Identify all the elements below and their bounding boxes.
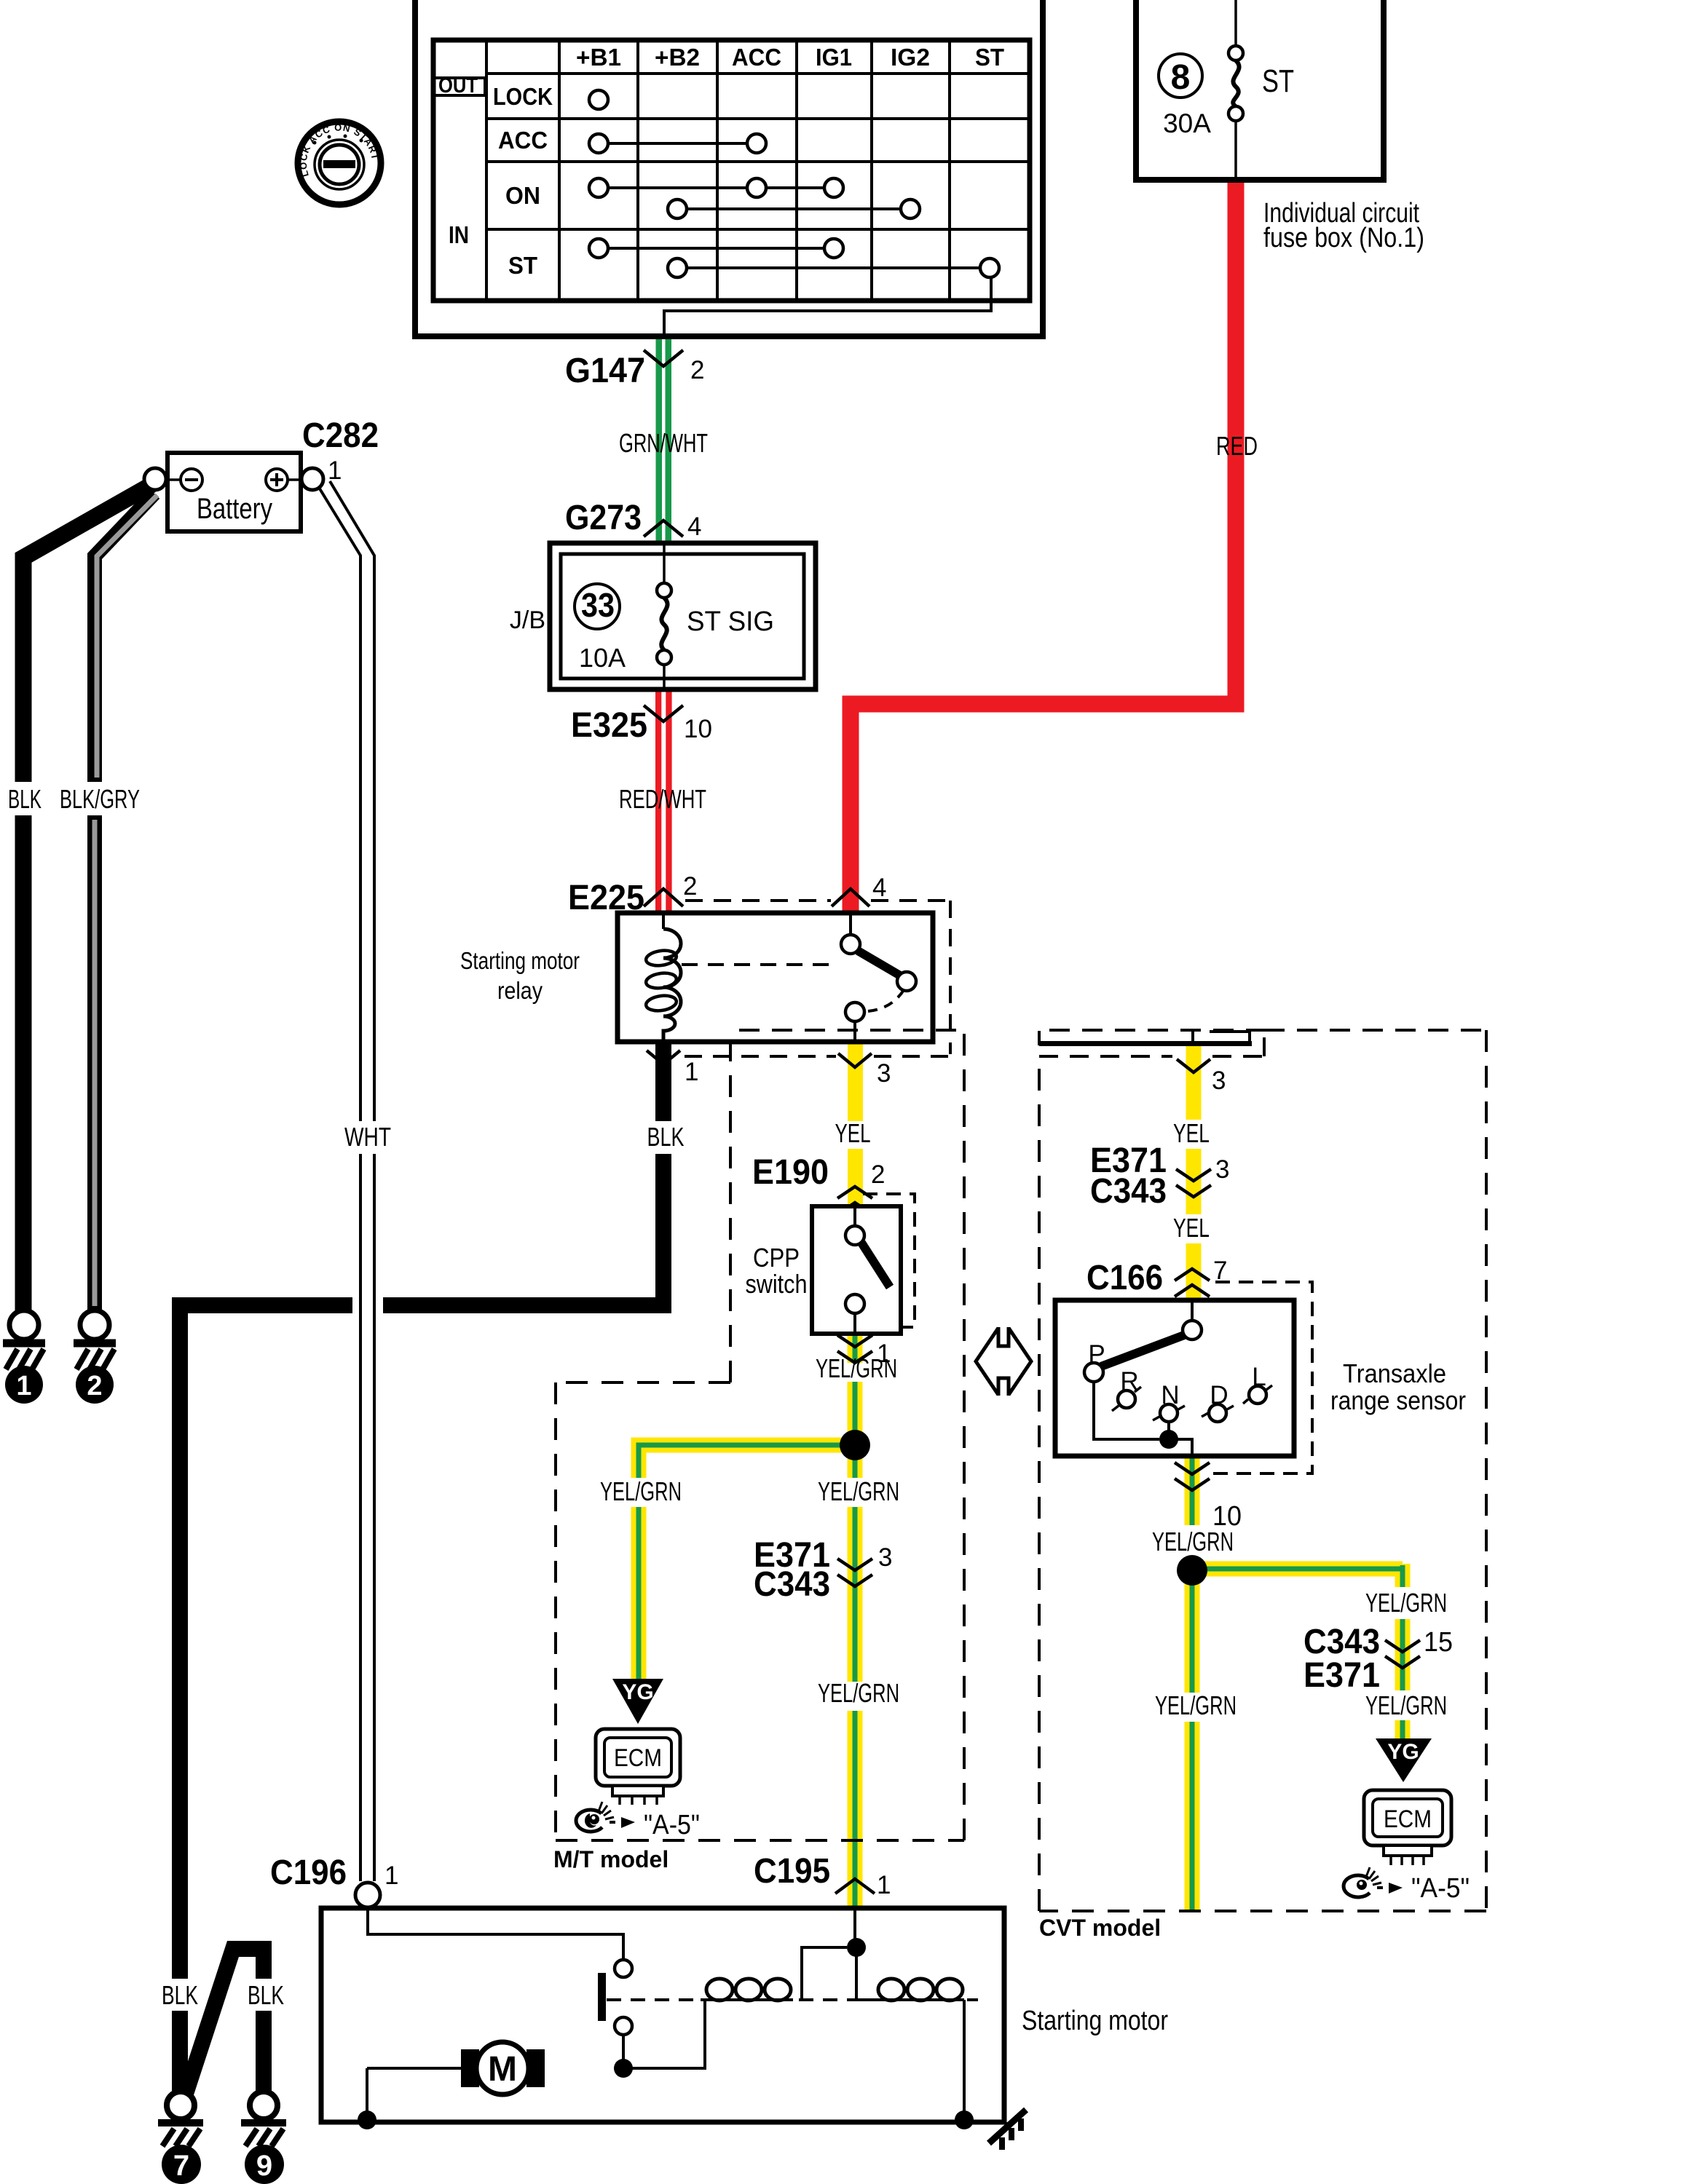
svg-text:Battery: Battery (197, 493, 272, 525)
svg-text:fuse box (No.1): fuse box (No.1) (1263, 223, 1424, 253)
svg-text:LOCK: LOCK (493, 83, 553, 110)
svg-text:Starting motor: Starting motor (1022, 2006, 1168, 2036)
svg-text:1: 1 (16, 1371, 31, 1401)
svg-text:BLK: BLK (162, 1980, 198, 2010)
svg-text:1: 1 (384, 1861, 398, 1890)
svg-text:2: 2 (690, 356, 704, 384)
svg-text:WHT: WHT (344, 1122, 391, 1152)
svg-text:4: 4 (687, 513, 701, 541)
svg-text:YEL/GRN: YEL/GRN (1365, 1588, 1447, 1618)
svg-text:2: 2 (683, 872, 697, 901)
svg-text:2: 2 (87, 1371, 102, 1401)
svg-text:OUT: OUT (438, 74, 478, 98)
svg-text:range sensor: range sensor (1330, 1385, 1466, 1415)
svg-text:YEL/GRN: YEL/GRN (1155, 1690, 1237, 1720)
svg-text:E190: E190 (752, 1153, 829, 1192)
svg-text:3: 3 (1212, 1067, 1226, 1095)
svg-text:3: 3 (877, 1059, 891, 1088)
svg-text:L: L (1252, 1363, 1266, 1391)
svg-text:relay: relay (497, 977, 543, 1004)
svg-text:YEL/GRN: YEL/GRN (1365, 1690, 1447, 1720)
svg-text:ST SIG: ST SIG (687, 606, 774, 637)
svg-text:C343: C343 (754, 1565, 830, 1604)
svg-text:ECM: ECM (614, 1744, 662, 1772)
svg-text:CVT model: CVT model (1039, 1915, 1161, 1941)
svg-text:3: 3 (1215, 1155, 1229, 1184)
svg-text:"A-5": "A-5" (644, 1810, 700, 1840)
svg-text:ST: ST (508, 252, 537, 279)
svg-text:8: 8 (1171, 58, 1191, 97)
svg-text:M/T model: M/T model (553, 1846, 669, 1872)
svg-text:YEL/GRN: YEL/GRN (818, 1476, 899, 1506)
svg-text:BLK: BLK (8, 784, 42, 814)
svg-text:7: 7 (1213, 1257, 1227, 1285)
svg-text:G147: G147 (565, 352, 645, 390)
svg-text:YG: YG (622, 1680, 653, 1704)
svg-text:3: 3 (878, 1543, 892, 1572)
svg-text:switch: switch (746, 1269, 808, 1299)
svg-text:ON: ON (505, 182, 540, 209)
svg-text:Starting motor: Starting motor (460, 947, 580, 974)
svg-text:15: 15 (1424, 1627, 1453, 1658)
svg-text:G273: G273 (565, 499, 642, 537)
svg-text:C196: C196 (270, 1853, 347, 1892)
svg-text:IN: IN (449, 221, 469, 248)
svg-text:YG: YG (1387, 1740, 1419, 1764)
svg-text:RED: RED (1216, 431, 1258, 461)
svg-text:C166: C166 (1086, 1259, 1163, 1297)
svg-text:BLK: BLK (248, 1980, 284, 2010)
svg-text:CPP: CPP (753, 1243, 800, 1273)
svg-text:+B2: +B2 (655, 44, 700, 71)
svg-text:J/B: J/B (510, 606, 545, 634)
svg-text:YEL/GRN: YEL/GRN (818, 1678, 899, 1708)
svg-text:ACC: ACC (732, 44, 781, 71)
svg-text:2: 2 (871, 1160, 885, 1189)
svg-text:BLK: BLK (647, 1122, 685, 1152)
svg-text:E371: E371 (1304, 1656, 1380, 1695)
svg-text:ACC: ACC (498, 127, 548, 154)
svg-text:ST: ST (1262, 63, 1294, 99)
svg-text:C343: C343 (1090, 1172, 1167, 1211)
svg-text:IG1: IG1 (816, 44, 852, 71)
svg-text:D: D (1210, 1381, 1228, 1409)
svg-text:4: 4 (872, 874, 886, 902)
svg-text:30A: 30A (1163, 108, 1211, 138)
svg-text:C282: C282 (302, 416, 379, 455)
svg-text:YEL/GRN: YEL/GRN (1152, 1527, 1234, 1556)
svg-text:1: 1 (685, 1058, 698, 1086)
svg-text:ECM: ECM (1384, 1805, 1432, 1833)
svg-text:R: R (1120, 1367, 1138, 1396)
svg-text:RED/WHT: RED/WHT (619, 784, 706, 814)
svg-text:10: 10 (684, 715, 712, 743)
svg-text:ST: ST (975, 44, 1004, 71)
svg-text:+B1: +B1 (576, 44, 621, 71)
svg-text:Transaxle: Transaxle (1343, 1358, 1446, 1388)
svg-text:E325: E325 (571, 706, 647, 745)
svg-text:M: M (488, 2050, 517, 2089)
svg-text:P: P (1088, 1340, 1105, 1369)
svg-text:N: N (1161, 1381, 1179, 1409)
svg-text:YEL: YEL (1173, 1213, 1210, 1243)
svg-text:1: 1 (328, 456, 342, 485)
svg-text:9: 9 (256, 2150, 272, 2182)
svg-text:7: 7 (173, 2150, 189, 2182)
svg-text:GRN/WHT: GRN/WHT (619, 428, 708, 458)
svg-text:IG2: IG2 (891, 44, 930, 71)
svg-text:YEL/GRN: YEL/GRN (816, 1353, 897, 1383)
svg-text:YEL/GRN: YEL/GRN (600, 1476, 682, 1506)
svg-text:33: 33 (581, 586, 615, 624)
svg-text:BLK/GRY: BLK/GRY (60, 784, 140, 814)
svg-text:C195: C195 (754, 1852, 830, 1891)
svg-text:YEL: YEL (835, 1118, 871, 1148)
svg-text:"A-5": "A-5" (1411, 1873, 1470, 1904)
svg-text:10A: 10A (579, 643, 626, 673)
svg-text:YEL: YEL (1173, 1118, 1210, 1148)
svg-text:1: 1 (877, 1871, 891, 1899)
